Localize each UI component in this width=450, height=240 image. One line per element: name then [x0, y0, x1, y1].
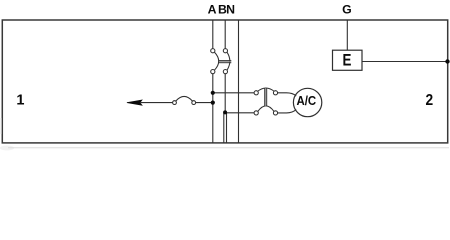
wire connector C2 to A/C motor bottom	[278, 110, 297, 113]
svg-text:N: N	[226, 2, 235, 16]
wire from node A to connector C2 top	[213, 92, 254, 94]
junction dot A lower	[211, 101, 215, 105]
connector C1 pin circle A top	[211, 49, 215, 53]
label node B	[218, 2, 227, 16]
scan artifact smudge bottom-left	[0, 118, 14, 151]
connector C2 pin circle bottom-right	[273, 111, 277, 115]
connector C1 pin circle A bottom	[211, 70, 215, 74]
wire B lower-right branch	[226, 113, 228, 143]
svg-text:1: 1	[16, 93, 24, 109]
motor A/C circle	[293, 88, 321, 116]
connector C2 bottom arc	[258, 106, 274, 112]
wire A middle segment	[212, 74, 214, 143]
connector C2 pin circle top-right	[273, 91, 277, 95]
label terminal 1	[16, 93, 24, 109]
breaker left terminal circle	[173, 101, 177, 105]
wire from breaker to node A	[196, 102, 213, 104]
breaker arc	[176, 96, 193, 101]
label node G	[342, 2, 352, 16]
connector C1 hatch lines	[219, 61, 231, 63]
svg-text:E: E	[342, 52, 351, 69]
wire from node B to connector C2 bottom	[225, 112, 254, 114]
scan artifact faint line below border	[8, 147, 449, 149]
svg-text:A/C: A/C	[296, 93, 316, 108]
label node A	[208, 2, 217, 16]
label terminal 2	[425, 92, 433, 109]
connector C2 pin circle top-left	[254, 91, 258, 95]
box E	[333, 50, 363, 70]
breaker right terminal circle	[192, 101, 196, 105]
wire from arrow to breaker	[140, 102, 173, 104]
boundary frame	[2, 20, 447, 143]
box E label	[342, 52, 351, 69]
label node N	[226, 2, 235, 16]
svg-text:2: 2	[425, 92, 433, 109]
wire B middle segment	[224, 74, 226, 113]
wire E to right border	[362, 61, 448, 63]
wire arrow continuation	[127, 100, 142, 105]
connector C1 left arc	[214, 52, 218, 70]
connector C2 top arc	[258, 88, 275, 91]
junction dot right border	[445, 59, 449, 63]
connector C2 pin circle bottom-left	[254, 111, 258, 115]
wire N	[238, 20, 240, 143]
connector C2 hatch lines	[265, 88, 267, 106]
junction dot B	[223, 110, 227, 114]
junction dot A upper	[211, 91, 215, 95]
wire A upper segment	[212, 20, 214, 49]
wire B upper segment	[224, 20, 226, 49]
connector C1 right arc	[227, 52, 230, 70]
connector C1 pin circle B bottom	[223, 70, 227, 74]
wire G	[346, 20, 348, 50]
connector C1 pin circle B top	[223, 49, 227, 53]
svg-text:A: A	[208, 2, 217, 16]
svg-text:G: G	[342, 2, 352, 16]
wire B lower-left branch	[223, 112, 225, 143]
motor A/C label	[296, 93, 316, 108]
wire connector C2 to A/C motor top	[278, 93, 297, 96]
